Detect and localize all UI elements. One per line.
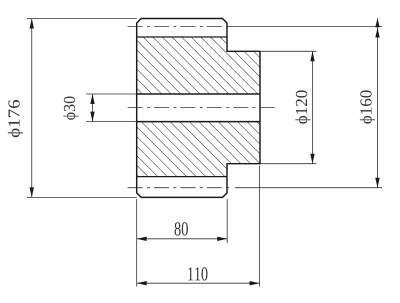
dim phi176 extension line top	[27, 18, 137, 20]
pitch line top	[128, 26, 230, 28]
dim 80 extension line left	[136, 199, 138, 287]
dim phi120 arrow bottom	[310, 154, 314, 164]
dim 80 arrow right	[217, 237, 227, 241]
dim phi30 extension line top	[86, 93, 137, 95]
dim phi160 extension line top	[227, 26, 382, 28]
dim 110 arrow left	[137, 281, 147, 285]
section hatching upper rim-and-hub area	[137, 37, 260, 94]
dim 110 dimension line	[137, 282, 260, 284]
dim 80 label	[175, 222, 188, 235]
dim 80 dimension line	[137, 238, 228, 240]
horizontal center line	[128, 107, 277, 109]
dim 110 label	[188, 267, 207, 280]
bore lower edge	[137, 121, 260, 123]
dim phi176 dimension line	[31, 19, 33, 198]
dim phi120 dimension line	[312, 51, 314, 163]
dim phi176 extension line bottom	[27, 196, 137, 198]
dim phi160 dimension line	[377, 19, 379, 188]
dim 80 arrow left	[137, 237, 147, 241]
dim phi176 arrow top	[30, 19, 34, 29]
dim phi120 label	[295, 90, 310, 123]
dim phi120 extension line top	[260, 50, 317, 52]
dim phi160 extension line bottom	[235, 187, 382, 189]
section hatching lower rim-and-hub area	[137, 122, 260, 177]
dim phi120 arrow top	[310, 51, 314, 61]
dim phi160 label	[360, 90, 375, 123]
dim phi30 dimension line	[92, 94, 94, 122]
bore upper edge	[137, 93, 260, 95]
dim phi30 extension line bottom	[86, 121, 137, 123]
dim 110 extension line right	[259, 166, 261, 287]
dim 110 arrow right	[250, 281, 260, 285]
dim phi120 extension line bottom	[260, 163, 317, 165]
dim phi176 label	[8, 100, 23, 137]
dim phi176 arrow bottom	[30, 187, 34, 197]
pitch line bottom	[128, 187, 232, 189]
dim phi160 arrow top outer	[375, 18, 379, 27]
gear body outline with chamfered tooth corners	[137, 19, 260, 198]
tooth root line top	[137, 36, 227, 38]
dim phi30 arrow bottom	[90, 112, 94, 122]
dim phi160 arrow top inner	[375, 28, 379, 38]
dim phi30 arrow top	[90, 94, 94, 104]
dim 80 extension line right	[226, 199, 228, 243]
tooth root line bottom	[137, 176, 227, 178]
dim phi30 label	[63, 96, 78, 119]
dim phi160 arrow bottom	[375, 178, 379, 188]
